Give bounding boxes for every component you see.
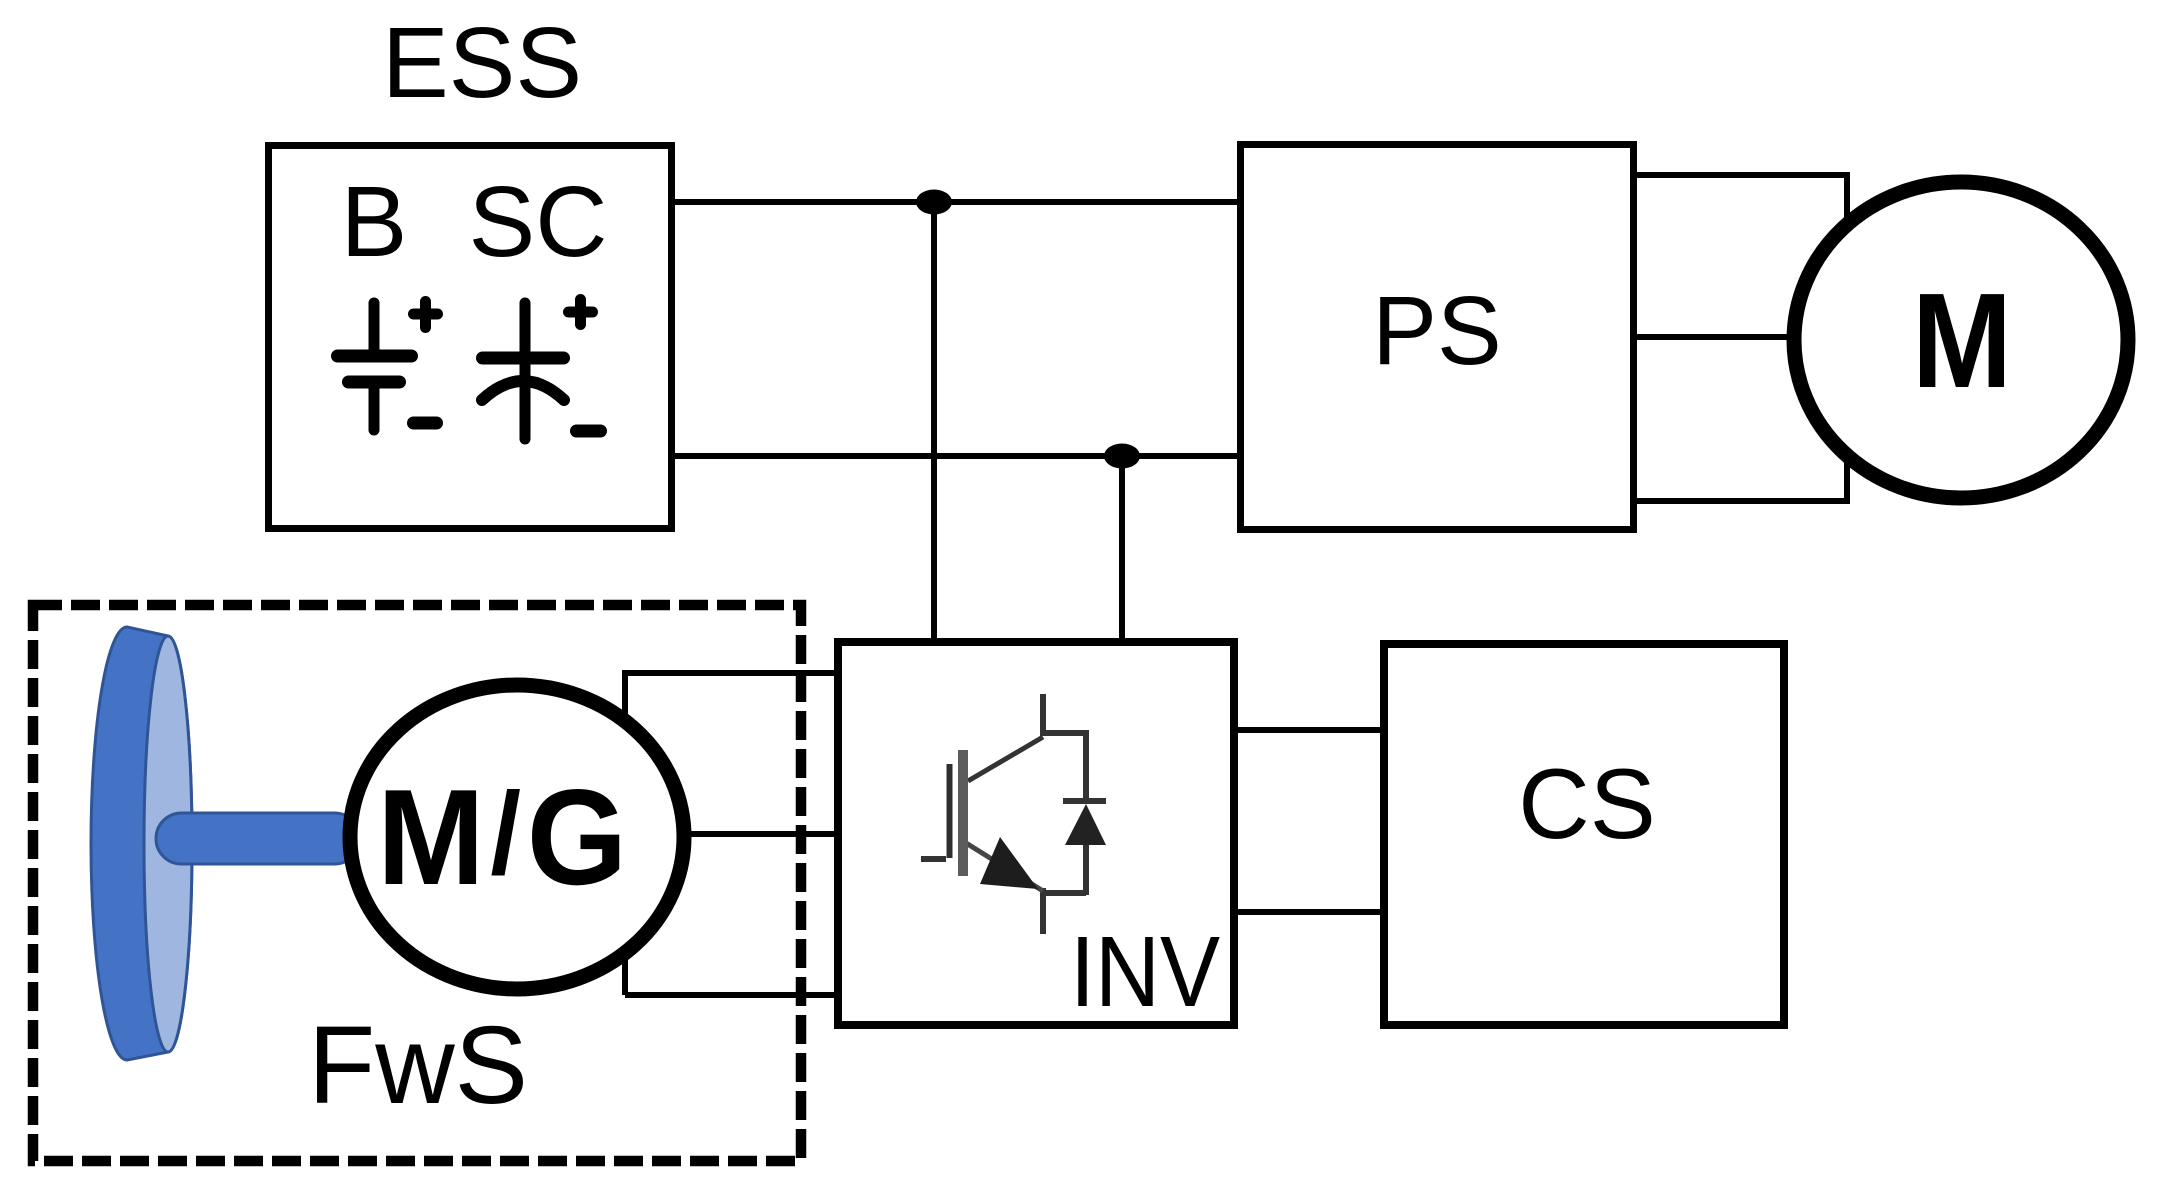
IGBT emitter arrow bbox=[980, 837, 1038, 889]
svg-text:SC: SC bbox=[469, 166, 608, 278]
motor M circle bbox=[1794, 182, 2128, 498]
motor/generator M/G circle bbox=[350, 685, 684, 989]
CS block bbox=[1384, 644, 1784, 1025]
wire: PS to M phase top bbox=[1637, 175, 1847, 340]
wire: top DC bus ESS to PS bbox=[675, 199, 1240, 205]
battery B symbol bbox=[338, 302, 438, 431]
svg-text:FwS: FwS bbox=[308, 1004, 528, 1127]
flywheel disk (side) bbox=[91, 627, 192, 1060]
flywheel face bbox=[144, 636, 192, 1052]
faint image backdrop inside ESS bbox=[300, 236, 630, 495]
wire: bottom DC bus ESS to PS bbox=[675, 453, 1240, 459]
PS block bbox=[1241, 145, 1634, 530]
flywheel shaft bbox=[156, 813, 360, 864]
svg-text:ESS: ESS bbox=[382, 7, 582, 119]
wire: M/G to INV phase middle bbox=[620, 831, 838, 837]
IGBT diode triangle bbox=[1065, 804, 1106, 845]
wire: vertical from node B to INV bbox=[1119, 456, 1125, 648]
svg-text:B: B bbox=[341, 166, 408, 278]
wire: vertical from node A to INV bbox=[931, 202, 937, 648]
wire: INV to CS bottom bbox=[1238, 909, 1384, 915]
ESS block bbox=[269, 146, 672, 529]
svg-text:CS: CS bbox=[1518, 748, 1656, 859]
wire: PS to M phase bottom bbox=[1637, 340, 1847, 501]
svg-text:INV: INV bbox=[1070, 917, 1221, 1028]
wire: INV to CS top bbox=[1238, 727, 1384, 733]
svg-text:M/G: M/G bbox=[377, 762, 633, 914]
node B junction dot bbox=[1104, 444, 1140, 469]
FwS dashed enclosure bbox=[33, 605, 801, 1161]
wire: M/G to INV phase bottom bbox=[625, 992, 838, 998]
node A junction dot bbox=[916, 190, 952, 215]
wire: M/G to INV phase top bbox=[625, 673, 838, 995]
faint image backdrop inside INV bbox=[914, 673, 1121, 939]
supercapacitor SC symbol bbox=[482, 300, 601, 440]
INV block bbox=[838, 642, 1234, 1025]
svg-text:M: M bbox=[1912, 266, 2012, 417]
wire: PS to M phase middle bbox=[1637, 334, 1850, 340]
svg-text:PS: PS bbox=[1372, 276, 1501, 385]
IGBT symbol inside INV bbox=[921, 694, 1106, 934]
